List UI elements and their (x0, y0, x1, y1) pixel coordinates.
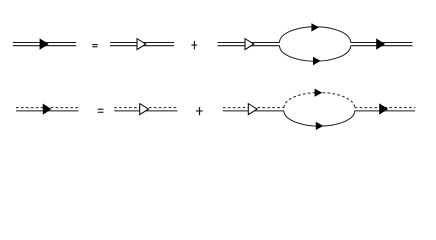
row 2: mixed line entering loop, solid bottom (223, 110, 284, 112)
row 1: bubble loop top arc (280, 27, 351, 43)
row 2: bubble loop dashed top arc (284, 93, 355, 108)
row 2: bare mixed propagator, solid bottom line (114, 110, 177, 112)
row 1: double line exiting loop (351, 43, 413, 46)
row 2: mixed line exiting loop, dashed top (355, 107, 416, 109)
row 1: plus sign (191, 41, 197, 49)
row 2: dressed mixed propagator, solid bottom line (16, 110, 79, 112)
row 1: arrow on loop top arc (311, 23, 319, 31)
row 1: bubble loop bottom arc (280, 46, 351, 61)
row 2: filled vertex triangle on left propagator (43, 104, 52, 115)
row 1: filled vertex triangle on left propagator (40, 38, 49, 49)
row 1: open vertex triangle on bare propagator (137, 39, 146, 50)
row 2: arrow on loop top arc (315, 89, 323, 97)
row 2: mixed line exiting loop, solid bottom (355, 110, 415, 112)
row 2: equals sign (98, 109, 104, 113)
row 2: plus sign (196, 107, 203, 115)
row 2: bare mixed propagator, dashed top line (114, 107, 177, 109)
row 2: bubble loop solid bottom arc (284, 111, 355, 126)
row 2: open vertex triangle on bare propagator (140, 104, 149, 115)
row 2: filled vertex triangle on exit propagator (379, 103, 388, 114)
row 1: open vertex triangle before loop (245, 39, 254, 50)
row 1: arrow on loop bottom arc (313, 57, 321, 65)
row 1: bare propagator double line (right of =) (110, 43, 174, 46)
row 2: arrow on loop bottom arc (316, 122, 324, 130)
row 1: dressed propagator double line (left of =) (13, 43, 76, 46)
row 2: mixed line entering loop, dashed top (223, 107, 284, 109)
row 1: equals sign (92, 44, 97, 47)
row 2: dressed mixed propagator, dashed top line (16, 107, 79, 109)
row 1: double line entering loop (218, 43, 280, 46)
row 2: open vertex triangle before loop (248, 104, 257, 115)
row 1: filled vertex triangle on exit propagator (376, 38, 385, 49)
